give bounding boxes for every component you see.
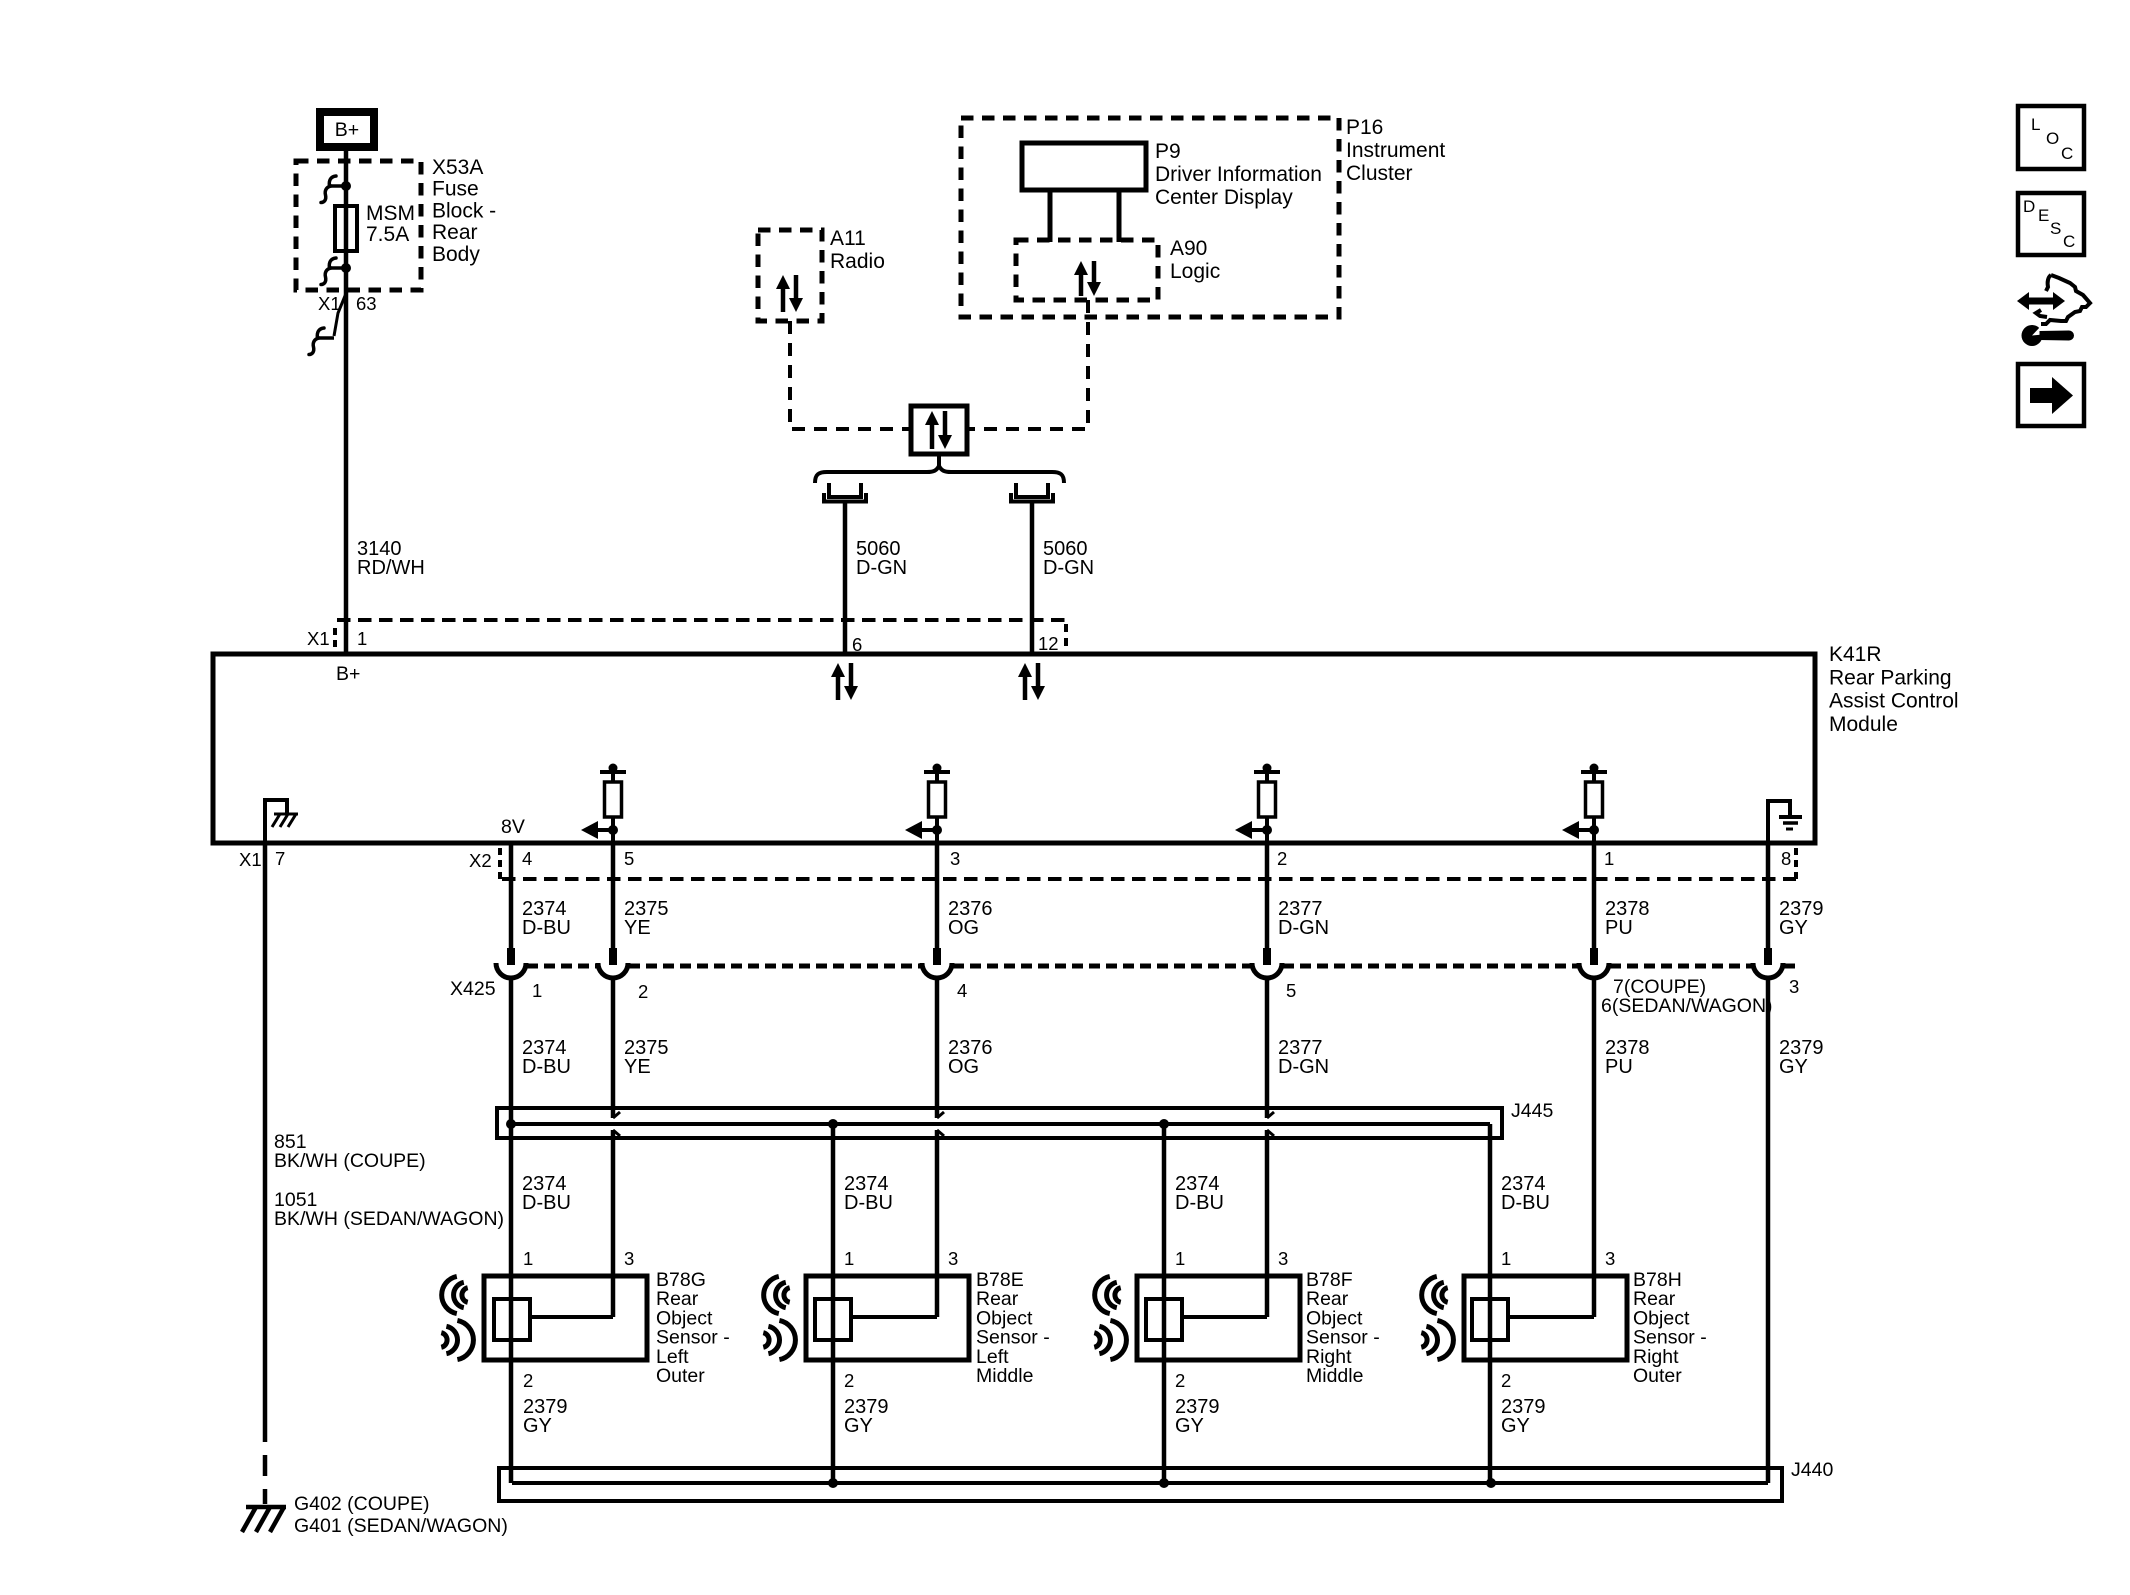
svg-text:2: 2 bbox=[1501, 1370, 1511, 1391]
svg-text:3: 3 bbox=[1789, 976, 1799, 997]
svg-text:J440: J440 bbox=[1791, 1459, 1833, 1481]
icon repair instructions (arrow, panel, wrench) bbox=[2046, 275, 2051, 291]
junction dots J440 bbox=[828, 1478, 838, 1488]
terminal bottom of fuse bbox=[331, 266, 346, 270]
wire 5060 D-GN right bbox=[1030, 501, 1035, 652]
svg-text:2: 2 bbox=[1277, 848, 1287, 869]
svg-text:Block -: Block - bbox=[432, 199, 496, 222]
wire at 937 crossing J445 bbox=[935, 977, 940, 1118]
svg-text:Body: Body bbox=[432, 243, 480, 266]
sensor B78E Rear Object Sensor Left Middle bbox=[806, 1276, 969, 1360]
svg-text:OG: OG bbox=[948, 1056, 979, 1078]
svg-text:E: E bbox=[2038, 206, 2049, 225]
svg-text:X1: X1 bbox=[239, 849, 262, 870]
serial data arrows at pin 12 bbox=[1023, 675, 1028, 700]
svg-text:OG: OG bbox=[948, 917, 979, 939]
wire 2379 GY trunk to J440 bbox=[1766, 977, 1771, 1483]
svg-text:PU: PU bbox=[1605, 1056, 1633, 1078]
svg-text:Outer: Outer bbox=[656, 1365, 705, 1387]
svg-text:6(SEDAN/WAGON): 6(SEDAN/WAGON) bbox=[1601, 995, 1773, 1017]
power symbol B+ bbox=[320, 112, 374, 147]
wire 2377 D-GN from module bbox=[1265, 843, 1270, 949]
svg-text:Middle: Middle bbox=[976, 1365, 1033, 1387]
svg-text:1: 1 bbox=[357, 628, 367, 649]
svg-text:12: 12 bbox=[1038, 633, 1059, 654]
svg-text:GY: GY bbox=[1175, 1415, 1204, 1437]
svg-text:1: 1 bbox=[1501, 1248, 1511, 1269]
fuse MSM 7.5A bbox=[335, 206, 357, 251]
svg-text:7: 7 bbox=[275, 848, 285, 869]
svg-text:5: 5 bbox=[624, 848, 634, 869]
svg-text:D-GN: D-GN bbox=[1043, 557, 1094, 579]
svg-text:3: 3 bbox=[950, 848, 960, 869]
svg-text:Middle: Middle bbox=[1306, 1365, 1363, 1387]
svg-text:Logic: Logic bbox=[1170, 260, 1220, 283]
wire 5060 D-GN left bbox=[843, 501, 848, 652]
internal pull-up resistor 3 bbox=[1263, 764, 1272, 773]
wire 2378 PU to B78H bbox=[1592, 977, 1597, 1317]
serial data arrows at pin 6 bbox=[836, 675, 841, 700]
junction dots J445 bbox=[506, 1119, 516, 1129]
wire 2376 OG from module bbox=[935, 843, 940, 949]
svg-text:Module: Module bbox=[1829, 713, 1898, 736]
svg-text:Rear: Rear bbox=[432, 221, 478, 244]
svg-text:J445: J445 bbox=[1511, 1100, 1553, 1122]
svg-text:X425: X425 bbox=[450, 978, 496, 1000]
splice pack J445 bbox=[497, 1108, 1502, 1138]
svg-text:X2: X2 bbox=[469, 850, 492, 871]
fuse block X53A dashed box bbox=[296, 161, 421, 290]
display P9 bbox=[1022, 143, 1146, 190]
svg-text:2: 2 bbox=[638, 981, 648, 1002]
X425 terminal on wire 2378 bbox=[1590, 948, 1598, 965]
svg-text:5: 5 bbox=[1286, 980, 1296, 1001]
terminal top of fuse bbox=[331, 184, 346, 188]
signal direction arrow 4 bbox=[1579, 828, 1594, 832]
chassis ground G402/G401 bbox=[246, 1505, 286, 1510]
sensor B78G Rear Object Sensor Left Outer bbox=[484, 1276, 647, 1360]
svg-text:63: 63 bbox=[356, 293, 377, 314]
J445 drop wires bbox=[831, 1124, 836, 1483]
svg-text:O: O bbox=[2046, 129, 2059, 148]
svg-text:Instrument: Instrument bbox=[1346, 139, 1445, 162]
ultrasonic waves B78F bbox=[1095, 1276, 1110, 1313]
svg-text:3: 3 bbox=[1605, 1248, 1615, 1269]
svg-text:D-BU: D-BU bbox=[522, 917, 571, 939]
svg-text:Driver Information: Driver Information bbox=[1155, 163, 1322, 186]
svg-text:8V: 8V bbox=[501, 816, 525, 838]
svg-text:Radio: Radio bbox=[830, 250, 885, 273]
sensor B78F Rear Object Sensor Right Middle bbox=[1137, 1276, 1300, 1360]
ultrasonic waves B78E bbox=[764, 1276, 779, 1313]
ultrasonic waves B78G bbox=[442, 1276, 457, 1313]
svg-text:GY: GY bbox=[1501, 1415, 1530, 1437]
icon LOC box bbox=[2018, 106, 2084, 169]
svg-text:C: C bbox=[2063, 232, 2075, 251]
svg-text:D-GN: D-GN bbox=[1278, 917, 1329, 939]
svg-text:4: 4 bbox=[522, 848, 532, 869]
svg-text:Outer: Outer bbox=[1633, 1365, 1682, 1387]
X425 terminal on wire 2376 bbox=[933, 948, 941, 965]
svg-text:B+: B+ bbox=[336, 663, 360, 685]
ground path pin X1-7 inside module bbox=[265, 800, 287, 843]
svg-text:2: 2 bbox=[1175, 1370, 1185, 1391]
wire B+ to fuse bbox=[344, 151, 349, 652]
svg-text:Rear Parking: Rear Parking bbox=[1829, 666, 1952, 689]
svg-text:3: 3 bbox=[948, 1248, 958, 1269]
wire 2375 YE from module bbox=[611, 843, 616, 949]
svg-text:PU: PU bbox=[1605, 917, 1633, 939]
svg-text:GY: GY bbox=[844, 1415, 873, 1437]
module K41R Rear Parking Assist Control Module bbox=[213, 654, 1815, 843]
internal pull-up resistor 1 bbox=[609, 764, 618, 773]
svg-text:A11: A11 bbox=[830, 227, 866, 250]
svg-text:GY: GY bbox=[1779, 1056, 1808, 1078]
svg-text:S: S bbox=[2050, 219, 2061, 238]
svg-text:3: 3 bbox=[1278, 1248, 1288, 1269]
instrument cluster P16 dashed box bbox=[961, 118, 1339, 317]
svg-text:1: 1 bbox=[1604, 848, 1614, 869]
serial data wire from A90 bbox=[968, 300, 1088, 429]
svg-text:MSM: MSM bbox=[366, 202, 415, 225]
signal direction arrow 3 bbox=[1252, 828, 1267, 832]
signal direction arrow 1 bbox=[598, 828, 613, 832]
svg-text:L: L bbox=[2031, 115, 2040, 134]
svg-text:Fuse: Fuse bbox=[432, 178, 479, 201]
svg-text:D-GN: D-GN bbox=[1278, 1056, 1329, 1078]
wire P9 to A90 right bbox=[1117, 190, 1122, 242]
in-line connector on wire 5060 right bbox=[1016, 483, 1048, 497]
svg-text:D-BU: D-BU bbox=[1175, 1192, 1224, 1214]
svg-text:YE: YE bbox=[624, 1056, 651, 1078]
svg-text:D-BU: D-BU bbox=[522, 1056, 571, 1078]
svg-text:K41R: K41R bbox=[1829, 643, 1882, 666]
radio A11 dashed box bbox=[758, 230, 822, 321]
serial data gateway symbol bbox=[911, 406, 967, 454]
icon next-page arrow box bbox=[2018, 364, 2084, 426]
chassis ground symbol inside module bbox=[274, 813, 298, 816]
svg-text:4: 4 bbox=[957, 980, 967, 1001]
svg-text:GY: GY bbox=[523, 1415, 552, 1437]
svg-text:X53A: X53A bbox=[432, 156, 483, 179]
ultrasonic waves B78H bbox=[1422, 1276, 1437, 1313]
signal direction arrow 2 bbox=[922, 828, 937, 832]
svg-text:8: 8 bbox=[1781, 848, 1791, 869]
internal pull-up resistor 2 bbox=[933, 764, 942, 773]
svg-text:BK/WH (COUPE): BK/WH (COUPE) bbox=[274, 1150, 426, 1172]
svg-text:C: C bbox=[2061, 144, 2073, 163]
icon DESC box bbox=[2018, 193, 2084, 255]
svg-text:BK/WH (SEDAN/WAGON): BK/WH (SEDAN/WAGON) bbox=[274, 1208, 504, 1230]
logic device A90 dashed box bbox=[1016, 240, 1158, 300]
X425 terminal on wire 2375 bbox=[609, 948, 617, 965]
svg-text:D-BU: D-BU bbox=[522, 1192, 571, 1214]
serial data arrows in A90 bbox=[1079, 273, 1084, 296]
svg-text:D: D bbox=[2023, 197, 2035, 216]
X425 terminal on wire 2377 bbox=[1263, 948, 1271, 965]
svg-text:3: 3 bbox=[624, 1248, 634, 1269]
svg-text:D-GN: D-GN bbox=[856, 557, 907, 579]
svg-text:D-BU: D-BU bbox=[844, 1192, 893, 1214]
svg-text:Assist Control: Assist Control bbox=[1829, 690, 1959, 713]
svg-text:1: 1 bbox=[1175, 1248, 1185, 1269]
splice pack J440 bbox=[499, 1468, 1782, 1501]
wire 2378 PU from module bbox=[1592, 843, 1597, 949]
ground path pin X2-8 inside module bbox=[1768, 801, 1790, 843]
svg-text:P16: P16 bbox=[1346, 116, 1383, 139]
svg-text:Cluster: Cluster bbox=[1346, 162, 1413, 185]
serial data arrows in A11 bbox=[781, 287, 786, 312]
serial data wire from A11 bbox=[790, 321, 911, 429]
svg-text:1: 1 bbox=[844, 1248, 854, 1269]
svg-text:2: 2 bbox=[523, 1370, 533, 1391]
svg-text:GY: GY bbox=[1779, 917, 1808, 939]
svg-text:X1: X1 bbox=[307, 628, 330, 649]
svg-text:YE: YE bbox=[624, 917, 651, 939]
brace splitting serial bus bbox=[815, 466, 1064, 483]
svg-text:7.5A: 7.5A bbox=[366, 223, 409, 246]
internal pull-up resistor 4 bbox=[1590, 764, 1599, 773]
earth ground symbol inside module bbox=[1779, 815, 1802, 819]
ground wire X1-7 to G402/G401 bbox=[263, 843, 268, 1421]
wire at 1267 crossing J445 bbox=[1265, 977, 1270, 1118]
X425 terminal on wire 2374 bbox=[507, 948, 515, 965]
wire at 613 crossing J445 bbox=[611, 977, 616, 1118]
connector X1 of K41R bbox=[337, 618, 1066, 622]
sensor B78H Rear Object Sensor Right Outer bbox=[1464, 1276, 1627, 1360]
X425 terminal on wire 2379 bbox=[1764, 948, 1772, 965]
svg-text:1: 1 bbox=[532, 980, 542, 1001]
in-line connector on wire 5060 left bbox=[829, 483, 861, 497]
svg-text:X1: X1 bbox=[318, 293, 341, 314]
svg-text:G401 (SEDAN/WAGON): G401 (SEDAN/WAGON) bbox=[294, 1515, 508, 1537]
wire 2374 D-BU trunk to J445/J440 bbox=[509, 977, 514, 1483]
svg-text:G402 (COUPE): G402 (COUPE) bbox=[294, 1493, 429, 1515]
svg-text:2: 2 bbox=[844, 1370, 854, 1391]
svg-text:RD/WH: RD/WH bbox=[357, 557, 425, 579]
svg-text:D-BU: D-BU bbox=[1501, 1192, 1550, 1214]
svg-text:P9: P9 bbox=[1155, 140, 1181, 163]
wire 2374 D-BU from module bbox=[509, 843, 514, 949]
svg-text:A90: A90 bbox=[1170, 237, 1207, 260]
svg-text:1: 1 bbox=[523, 1248, 533, 1269]
svg-text:Center Display: Center Display bbox=[1155, 186, 1293, 209]
svg-text:B+: B+ bbox=[335, 119, 359, 141]
wire 2379 GY from module bbox=[1766, 843, 1771, 949]
wire P9 to A90 left bbox=[1048, 190, 1053, 242]
